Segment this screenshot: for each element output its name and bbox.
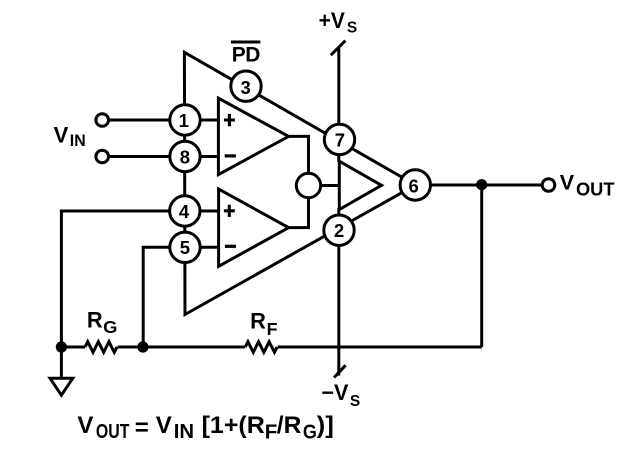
supply break slash +VS	[331, 41, 346, 56]
svg-text:1: 1	[179, 110, 189, 131]
wire RG to node B	[118, 346, 246, 349]
op-amp U1 outer triangle	[184, 52, 415, 314]
wire pin 4 left and down to ground node	[61, 211, 170, 347]
wire pin 8 to A1 inverting input	[199, 155, 219, 158]
svg-text:/R: /R	[277, 412, 302, 439]
wire pin 5 left and down to node B	[143, 247, 170, 347]
svg-text:8: 8	[180, 146, 190, 167]
svg-text:4: 4	[179, 201, 190, 222]
output terminal VOUT open circle	[542, 179, 555, 192]
supply break slash -VS	[334, 365, 346, 377]
svg-text:S: S	[347, 20, 357, 37]
pin 8 circle	[170, 141, 200, 171]
pin 4 circle	[170, 196, 200, 226]
svg-text:S: S	[350, 393, 360, 410]
wire summing node to output buffer	[321, 184, 340, 187]
svg-text:G: G	[103, 317, 117, 337]
input terminal VIN+ open circle	[96, 114, 109, 127]
svg-text:[1+(R: [1+(R	[202, 412, 265, 439]
amplifier A1 upper input stage triangle	[218, 98, 288, 174]
wire pin 1 to A1 noninverting input	[199, 119, 219, 122]
wire output buffer to pin 2	[337, 208, 340, 217]
svg-text:R: R	[250, 309, 266, 334]
svg-text:+V: +V	[319, 8, 346, 33]
pin 5 circle	[170, 232, 200, 262]
svg-text:V: V	[560, 170, 575, 194]
wire bottom rail ground node to RG	[61, 346, 85, 349]
pin 7 circle	[324, 124, 354, 154]
A1 plus sign	[224, 114, 235, 126]
wire output node down to feedback rail	[480, 185, 483, 347]
input terminal VIN- open circle	[96, 150, 109, 163]
svg-text:7: 7	[335, 129, 345, 150]
svg-text:OUT: OUT	[576, 179, 615, 199]
pin 3 circle	[231, 71, 261, 101]
wire A1 apex to summing node	[289, 136, 309, 174]
junction dot output node	[476, 179, 487, 190]
wire pin 2 to -VS supply	[337, 245, 340, 376]
svg-text:2: 2	[334, 220, 344, 241]
svg-text:V: V	[54, 122, 69, 147]
ground	[50, 378, 73, 395]
junction dot ground node	[56, 341, 67, 352]
PD overline	[231, 41, 260, 44]
wire ground node to ground symbol	[60, 347, 63, 378]
svg-text:=: =	[135, 414, 149, 441]
wire pin 4 to A2 noninverting input	[199, 210, 219, 213]
wire VIN- terminal to pin 8	[108, 155, 170, 158]
pin 6 circle	[400, 170, 430, 200]
A2 plus sign	[224, 205, 235, 217]
svg-text:PD: PD	[232, 44, 261, 67]
summing node circle	[296, 173, 320, 197]
A1 minus sign	[225, 154, 236, 157]
svg-text:3: 3	[240, 77, 250, 98]
svg-text:−V: −V	[321, 380, 348, 405]
svg-text:IN: IN	[70, 131, 86, 150]
output buffer triangle	[339, 161, 381, 209]
resistor RF	[245, 342, 277, 353]
svg-text:6: 6	[408, 176, 418, 197]
pin 2 circle	[324, 215, 354, 245]
wire RF to output rail	[278, 346, 482, 349]
wire pin 5 to A2 inverting input	[200, 246, 219, 249]
svg-text:G: G	[303, 421, 317, 444]
svg-text:R: R	[87, 308, 103, 333]
wire pin 6 to VOUT terminal	[430, 184, 543, 187]
svg-text:V: V	[77, 412, 93, 439]
svg-text:F: F	[267, 319, 278, 339]
svg-text:5: 5	[180, 237, 190, 258]
A2 minus sign	[225, 245, 236, 248]
junction dot node B	[137, 341, 148, 352]
amplifier A2 lower input stage triangle	[219, 189, 289, 266]
svg-text:F: F	[265, 421, 278, 444]
svg-text:)]: )]	[317, 412, 334, 439]
resistor RG	[85, 342, 117, 353]
wire VIN+ terminal to pin 1	[108, 119, 170, 122]
wire pin 7 to output buffer	[337, 153, 340, 162]
svg-text:IN: IN	[174, 420, 194, 443]
wire A2 apex to summing node	[289, 198, 309, 228]
wire +VS supply to pin 7	[337, 47, 340, 128]
svg-text:OUT: OUT	[96, 420, 130, 443]
pin 1 circle	[170, 105, 200, 135]
svg-text:V: V	[156, 412, 172, 439]
